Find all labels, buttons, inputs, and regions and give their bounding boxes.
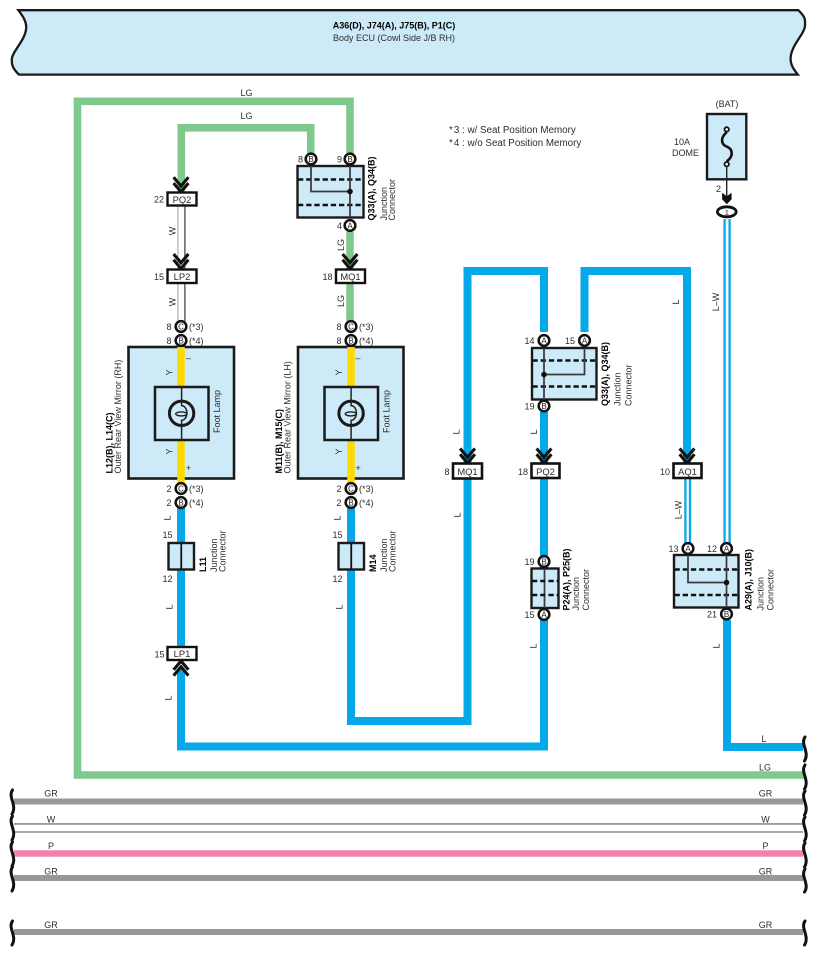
svg-text:2: 2 bbox=[716, 184, 721, 194]
svg-text:21: 21 bbox=[707, 610, 717, 620]
svg-text:A: A bbox=[541, 336, 547, 345]
pin 8 B of Q33 top bbox=[306, 154, 317, 165]
svg-text:15: 15 bbox=[565, 336, 575, 346]
pin 13 A of A29 bbox=[683, 543, 694, 554]
svg-text:C: C bbox=[348, 484, 354, 493]
svg-text:GR: GR bbox=[759, 920, 773, 930]
svg-text:18: 18 bbox=[322, 272, 332, 282]
svg-text:2: 2 bbox=[166, 498, 171, 508]
svg-text:P: P bbox=[48, 841, 54, 851]
svg-text:L: L bbox=[452, 429, 462, 434]
wire LG (Q33 pin 4A down through MQ1 18 to mirror LH pin 8C) bbox=[346, 232, 354, 322]
svg-text:L11: L11 bbox=[198, 557, 208, 572]
svg-text:–: – bbox=[186, 353, 191, 363]
banner Body ECU (Cowl Side J/B RH) bbox=[12, 10, 805, 74]
svg-text:PQ2: PQ2 bbox=[173, 194, 192, 205]
svg-text:Outer Rear View Mirror (LH): Outer Rear View Mirror (LH) bbox=[283, 361, 293, 473]
wire W (LP2 15 to mirror RH pin 8C) bbox=[178, 283, 185, 322]
svg-text:15: 15 bbox=[332, 530, 342, 540]
svg-text:B: B bbox=[347, 155, 352, 164]
svg-text:A: A bbox=[582, 336, 588, 345]
wire L stub (mirror RH pin 2B to L11) bbox=[177, 507, 185, 543]
wire W (PQ2 22 to LP2 15) bbox=[178, 205, 185, 270]
svg-text:PQ2: PQ2 bbox=[536, 466, 555, 477]
svg-text:Junction: Junction bbox=[571, 577, 581, 611]
connector flag 18 MQ1 bbox=[322, 270, 365, 284]
svg-text:19: 19 bbox=[524, 557, 534, 567]
wire L (LP1 down, right along bottom, up to P24 pin 15A) bbox=[181, 620, 544, 747]
svg-text:GR: GR bbox=[759, 789, 773, 799]
junction connector L11 bbox=[162, 530, 227, 584]
svg-text:P24(A), P25(B): P24(A), P25(B) bbox=[561, 548, 571, 610]
svg-text:M14: M14 bbox=[368, 554, 378, 572]
svg-text:15: 15 bbox=[154, 272, 164, 282]
arrow solid to node 1 bbox=[722, 193, 732, 204]
wire L (A29 pin 21B down and right to edge) bbox=[727, 620, 803, 747]
svg-text:18: 18 bbox=[518, 467, 528, 477]
svg-text:Junction: Junction bbox=[755, 577, 765, 611]
svg-text:C: C bbox=[178, 484, 184, 493]
arrow up to LP1 15 bbox=[174, 661, 189, 676]
wire L stub (mirror LH pin 2B to M14) bbox=[347, 507, 355, 543]
svg-text:L: L bbox=[529, 643, 539, 648]
svg-text:15: 15 bbox=[162, 530, 172, 540]
wire W bus bbox=[14, 824, 803, 832]
svg-text:+: + bbox=[186, 463, 191, 473]
svg-text:2: 2 bbox=[336, 484, 341, 494]
pin 12 A of A29 bbox=[721, 543, 732, 554]
svg-text:(BAT): (BAT) bbox=[716, 99, 739, 109]
svg-text:2: 2 bbox=[336, 498, 341, 508]
svg-text:–: – bbox=[356, 353, 361, 363]
svg-text:8: 8 bbox=[166, 336, 171, 346]
svg-text:MQ1: MQ1 bbox=[457, 466, 477, 477]
svg-text:(*3): (*3) bbox=[189, 484, 204, 494]
svg-text:Q33(A), Q34(B): Q33(A), Q34(B) bbox=[367, 156, 377, 220]
svg-text:1: 1 bbox=[725, 208, 729, 217]
wire L (L11 to LP1 15) bbox=[177, 569, 185, 648]
svg-text:C: C bbox=[178, 322, 184, 331]
wire GR bus 3 bbox=[14, 929, 803, 935]
svg-text:GR: GR bbox=[759, 867, 773, 877]
svg-text:GR: GR bbox=[44, 789, 58, 799]
pin 8 C of mirror RH bbox=[176, 321, 187, 332]
svg-text:Connector: Connector bbox=[581, 569, 591, 611]
pin 8 B of mirror RH bbox=[176, 335, 187, 346]
svg-text:Junction: Junction bbox=[612, 372, 622, 406]
svg-text:12: 12 bbox=[162, 574, 172, 584]
svg-text:(*4): (*4) bbox=[359, 498, 374, 508]
svg-text:L: L bbox=[335, 604, 345, 609]
pin 8 B of mirror LH bbox=[346, 335, 357, 346]
svg-text:15: 15 bbox=[524, 610, 534, 620]
svg-text:B: B bbox=[541, 402, 546, 411]
pin 2 B of mirror RH bbox=[176, 497, 187, 508]
svg-text:13: 13 bbox=[668, 544, 678, 554]
svg-text:(*4): (*4) bbox=[189, 498, 204, 508]
wire L-W (fuse node 1 down to A29 pin 12A) bbox=[725, 219, 730, 544]
svg-text:10: 10 bbox=[660, 467, 670, 477]
svg-text:12: 12 bbox=[332, 574, 342, 584]
junction connector P24(A) P25(B) bbox=[532, 569, 559, 609]
wire L (Q33 pin 15A up, right, down to AQ1 10) bbox=[585, 271, 688, 464]
mirror RH component L12(B) L14(C) bbox=[129, 347, 235, 484]
svg-text:Connector: Connector bbox=[387, 179, 397, 221]
svg-text:W: W bbox=[168, 226, 178, 235]
svg-text:Outer Rear View Mirror (RH): Outer Rear View Mirror (RH) bbox=[113, 360, 123, 474]
svg-text:(*4): (*4) bbox=[189, 336, 204, 346]
pin 15 A of P24 bbox=[539, 609, 550, 620]
svg-text:L: L bbox=[671, 299, 681, 304]
pin 19 B of Q33 mid bbox=[539, 401, 550, 412]
arrow down to MQ1 8 bbox=[460, 449, 475, 464]
pin 19 B of P24 bbox=[539, 556, 550, 567]
svg-text:Q33(A), Q34(B): Q33(A), Q34(B) bbox=[600, 342, 610, 406]
svg-text:B: B bbox=[348, 498, 353, 507]
svg-text:10A: 10A bbox=[674, 137, 690, 147]
pin 8 C of mirror LH bbox=[346, 321, 357, 332]
pin 2 C of mirror RH bbox=[176, 483, 187, 494]
svg-text:19: 19 bbox=[524, 402, 534, 412]
svg-text:*4 : w/o Seat Position Memory: *4 : w/o Seat Position Memory bbox=[449, 138, 581, 149]
svg-text:LG: LG bbox=[336, 295, 346, 307]
svg-text:LP1: LP1 bbox=[174, 648, 191, 659]
svg-text:Y: Y bbox=[334, 448, 344, 454]
wire GR bus 1 bbox=[14, 799, 803, 805]
mirror LH component M11(B) M15(C) bbox=[298, 347, 404, 484]
svg-text:B: B bbox=[178, 336, 183, 345]
pin 4 A of Q33 top bbox=[345, 220, 356, 231]
svg-text:L: L bbox=[165, 604, 175, 609]
svg-text:L: L bbox=[453, 512, 463, 517]
svg-text:Body ECU (Cowl Side J/B RH): Body ECU (Cowl Side J/B RH) bbox=[333, 33, 455, 43]
pin 2 B of mirror LH bbox=[346, 497, 357, 508]
svg-text:B: B bbox=[724, 610, 729, 619]
node 1 ellipse bbox=[717, 207, 736, 217]
svg-text:LG: LG bbox=[240, 88, 252, 98]
svg-text:8: 8 bbox=[298, 155, 303, 165]
svg-text:LG: LG bbox=[759, 763, 771, 773]
junction connector Q33(A) Q34(B) mid bbox=[532, 348, 597, 400]
svg-text:B: B bbox=[308, 155, 313, 164]
arrow down to AQ1 10 bbox=[680, 449, 695, 464]
connector flag 10 AQ1 bbox=[660, 464, 702, 479]
svg-text:C: C bbox=[348, 322, 354, 331]
svg-text:A29(A), J10(B): A29(A), J10(B) bbox=[744, 549, 754, 611]
pin 15 A of Q33 mid bbox=[579, 335, 590, 346]
wire LG branch (PQ2 22 to Q33 pin 8B) bbox=[181, 128, 310, 192]
arrow down to MQ1 18 bbox=[343, 254, 358, 269]
svg-text:A: A bbox=[541, 610, 547, 619]
svg-text:LP2: LP2 bbox=[174, 271, 191, 282]
svg-text:Connector: Connector bbox=[388, 530, 398, 572]
wire P bus bbox=[14, 850, 803, 857]
svg-text:A: A bbox=[347, 221, 353, 230]
svg-text:L: L bbox=[712, 643, 722, 648]
connector flag 15 LP1 bbox=[154, 647, 196, 660]
svg-text:AQ1: AQ1 bbox=[678, 466, 697, 477]
svg-text:L: L bbox=[761, 734, 766, 744]
svg-text:L: L bbox=[163, 515, 173, 520]
fuse 10A DOME bbox=[672, 99, 746, 179]
svg-text:Y: Y bbox=[165, 369, 175, 375]
svg-text:P: P bbox=[762, 841, 768, 851]
svg-text:Foot Lamp: Foot Lamp bbox=[382, 390, 392, 433]
svg-text:A36(D), J74(A), J75(B), P1(C): A36(D), J74(A), J75(B), P1(C) bbox=[333, 21, 456, 31]
svg-text:W: W bbox=[168, 297, 178, 306]
connector flag 8 MQ1 bbox=[444, 464, 482, 479]
svg-text:A: A bbox=[685, 544, 691, 553]
pin 9 B of Q33 top bbox=[345, 154, 356, 165]
pin 2 C of mirror LH bbox=[346, 483, 357, 494]
svg-text:GR: GR bbox=[44, 920, 58, 930]
svg-text:Connector: Connector bbox=[218, 530, 228, 572]
svg-text:2: 2 bbox=[166, 484, 171, 494]
connector flag 18 PQ2 bbox=[518, 464, 560, 479]
svg-text:(*3): (*3) bbox=[359, 484, 374, 494]
svg-text:+: + bbox=[356, 463, 361, 473]
svg-text:8: 8 bbox=[166, 322, 171, 332]
svg-text:L: L bbox=[529, 429, 539, 434]
wire LG main loop (Body ECU to Q33 pin 9B and bottom LG bus) bbox=[78, 101, 806, 775]
wire L (Q33 pin 19B down through PQ2 18 to P24 junction) bbox=[540, 412, 548, 568]
continuation squiggles left edge bbox=[11, 790, 14, 945]
svg-text:12: 12 bbox=[707, 544, 717, 554]
svg-text:A: A bbox=[724, 544, 730, 553]
wire L-W (AQ1 10 down to A29 pin 13A) bbox=[685, 478, 690, 544]
arrow down to LP2 15 bbox=[174, 254, 189, 269]
svg-text:8: 8 bbox=[336, 336, 341, 346]
svg-text:Foot Lamp: Foot Lamp bbox=[212, 390, 222, 433]
wire GR bus 2 bbox=[14, 875, 803, 881]
arrow down to PQ2 22 bbox=[174, 177, 189, 192]
svg-text:B: B bbox=[178, 498, 183, 507]
svg-text:L–W: L–W bbox=[711, 292, 721, 311]
svg-text:MQ1: MQ1 bbox=[340, 271, 360, 282]
svg-text:Y: Y bbox=[334, 369, 344, 375]
svg-text:L–W: L–W bbox=[674, 500, 684, 519]
pin 14 A of Q33 mid bbox=[539, 335, 550, 346]
connector flag 15 LP2 bbox=[154, 270, 197, 284]
svg-text:*3 : w/ Seat Position Memory: *3 : w/ Seat Position Memory bbox=[449, 125, 576, 136]
svg-text:9: 9 bbox=[337, 155, 342, 165]
svg-text:8: 8 bbox=[336, 322, 341, 332]
wire L (M14 down, right, up through MQ1 8, over and down to Q33 pin 14A) bbox=[351, 271, 544, 721]
svg-text:B: B bbox=[348, 336, 353, 345]
svg-text:15: 15 bbox=[154, 650, 164, 660]
arrow down to PQ2 18 bbox=[537, 449, 552, 464]
svg-text:(*3): (*3) bbox=[359, 322, 374, 332]
svg-text:8: 8 bbox=[444, 467, 449, 477]
svg-text:DOME: DOME bbox=[672, 148, 699, 158]
svg-text:Connector: Connector bbox=[623, 364, 633, 406]
svg-text:B: B bbox=[541, 557, 546, 566]
svg-text:LG: LG bbox=[336, 239, 346, 251]
junction connector M14 bbox=[332, 530, 397, 584]
svg-text:W: W bbox=[761, 815, 770, 825]
svg-text:14: 14 bbox=[524, 336, 534, 346]
svg-text:LG: LG bbox=[240, 111, 252, 121]
svg-text:GR: GR bbox=[44, 867, 58, 877]
svg-text:L: L bbox=[333, 515, 343, 520]
svg-text:22: 22 bbox=[154, 195, 164, 205]
svg-text:W: W bbox=[47, 815, 56, 825]
svg-text:(*4): (*4) bbox=[359, 336, 374, 346]
continuation squiggles right edge bbox=[804, 737, 807, 945]
junction connector A29(A) J10(B) bbox=[674, 555, 739, 608]
junction connector Q33(A) Q34(B) top bbox=[298, 166, 364, 218]
svg-text:Connector: Connector bbox=[766, 569, 776, 611]
svg-text:L: L bbox=[164, 695, 174, 700]
wire fuse lead pin 2 bbox=[726, 167, 728, 196]
svg-text:(*3): (*3) bbox=[189, 322, 204, 332]
svg-text:Y: Y bbox=[165, 448, 175, 454]
svg-text:4: 4 bbox=[337, 221, 342, 231]
connector flag 22 PQ2 bbox=[154, 193, 197, 206]
pin 21 B of A29 bbox=[721, 609, 732, 620]
